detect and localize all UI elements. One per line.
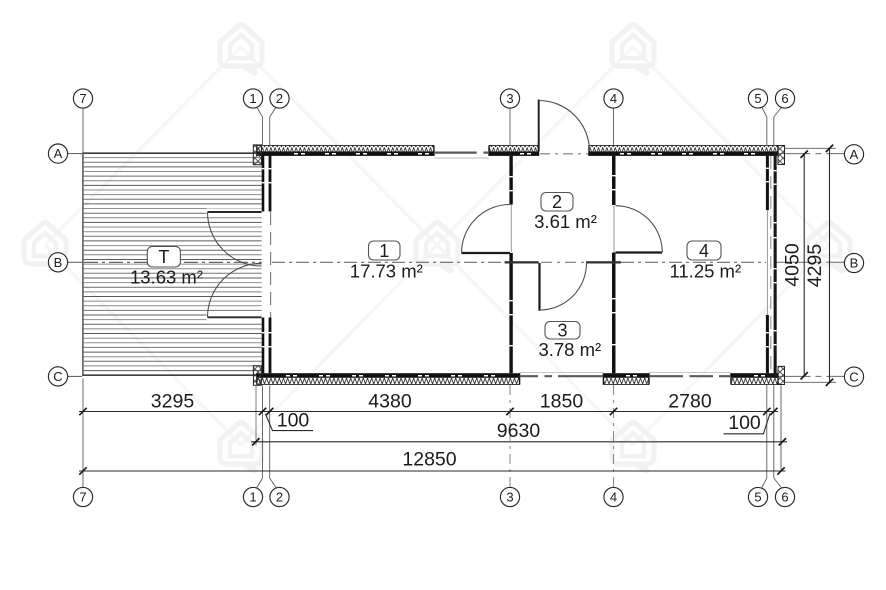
grid axis circle 3 top [500,89,519,108]
entry door swing [539,101,590,152]
interior wall axis B left segment [505,261,539,263]
svg-text:2: 2 [276,91,283,106]
dim line 4295 [829,148,831,382]
svg-text:4: 4 [610,490,617,505]
svg-text:4: 4 [610,91,617,106]
door room3 leaf [538,263,540,311]
room label 4 box [687,241,721,260]
grid axis circle 6 top [775,89,794,108]
svg-text:4050: 4050 [782,243,804,287]
room label 1 box [369,241,401,260]
svg-text:1: 1 [249,490,256,505]
svg-text:B: B [54,255,63,270]
svg-text:11.25 m²: 11.25 m² [669,261,741,282]
grid axis circle 6 bottom [775,487,794,506]
dimension row 3 line (12850) [79,470,786,472]
room label 2 box [541,193,573,212]
room label 3 box [545,322,580,340]
door room1-room2 jamb line [510,205,512,253]
svg-text:6: 6 [781,91,788,106]
right wall centre dash line [770,156,772,373]
svg-text:3: 3 [506,490,513,505]
grid axis circle 2 top [270,89,289,108]
svg-text:1: 1 [249,91,256,106]
door room4-room2 jamb line [613,206,615,253]
grid axis circle 3 bottom [500,487,519,506]
grid axis circle 1 bottom [243,487,262,506]
door room4-room2 swing [616,206,663,253]
svg-text:A: A [54,146,63,161]
svg-text:3.78 m²: 3.78 m² [538,339,601,360]
interior wall axis 4 upper stub [612,156,616,205]
axis 3 line upper [509,108,511,145]
terrace double door top leaf [207,209,262,216]
svg-text:17.73 m²: 17.73 m² [350,261,423,282]
dimension row 2 line (9630) [251,441,787,443]
grid axis circle A left [48,144,67,163]
grid axis circle A right [844,145,863,164]
grid axis circle C right [844,367,863,386]
grid axis circle 4 bottom [604,487,623,506]
axis 4 line upper [613,108,615,145]
svg-text:2780: 2780 [668,390,712,412]
interior wall axis 3 upper stub [509,156,512,205]
axis B line [68,261,83,263]
svg-text:1850: 1850 [540,390,584,412]
right wall (axis 5-6) [774,151,777,377]
right extension line at A [785,147,837,149]
svg-text:T: T [158,247,169,267]
terrace double door bottom swing [208,263,262,317]
top-right corner post [778,146,785,165]
bottom window room4 [649,375,731,377]
door room4-room2 leaf [616,251,663,253]
axis 7 line upper [82,108,84,153]
interior wall axis 3 lower [509,253,512,373]
svg-text:4295: 4295 [804,244,826,288]
top wall window [434,152,489,154]
top wall: segments with insulation hatch + black core [257,145,434,151]
svg-text:7: 7 [79,91,86,106]
svg-text:9630: 9630 [497,420,541,442]
svg-text:100: 100 [277,410,310,432]
right extension line at bottom [785,381,837,383]
svg-text:12850: 12850 [402,448,456,470]
dim line 4050 [803,154,805,376]
svg-text:3: 3 [506,91,513,106]
door room1-room2 leaf [462,252,511,254]
grid axis circle 5 top [748,89,767,108]
grid axis circle C left [48,367,67,386]
svg-text:C: C [53,369,62,384]
terrace double door bottom leaf [207,314,262,321]
grid axis circle 7 bottom [73,487,92,506]
axis A line [68,153,83,155]
svg-text:5: 5 [754,91,761,106]
svg-text:6: 6 [781,490,788,505]
svg-text:C: C [849,369,858,384]
svg-text:3: 3 [557,321,567,341]
svg-text:13.63 m²: 13.63 m² [130,266,203,287]
bottom-right corner post [778,366,785,384]
door room3 swing [540,263,587,310]
interior wall axis B right segment [586,261,621,263]
svg-text:2: 2 [276,490,283,505]
svg-text:7: 7 [79,490,86,505]
wall joint marks [262,153,777,377]
grid axis circle B right [844,253,863,272]
svg-text:3.61 m²: 3.61 m² [534,211,597,232]
top-left corner post [253,145,261,165]
grid axis circle 5 bottom [748,487,767,506]
axis 2 dashes in terrace door opening [270,212,272,318]
room label T terrace box [147,246,180,267]
grid axis circle 7 top [73,89,92,108]
dim 100 right [724,414,771,434]
watermark house logos [24,25,850,473]
grid axis circle 4 top [604,89,623,108]
entry door leaf [538,100,540,152]
grid axis circle B left [48,253,67,272]
dimension row 1 line [79,411,778,413]
terrace border [82,152,261,154]
svg-text:3295: 3295 [151,390,195,412]
grid axis circle 1 top [243,89,262,108]
door room1-room2 swing [462,205,511,254]
left wall (axis 1-2) segments [262,151,265,211]
terrace deck hatch [84,158,262,371]
svg-text:5: 5 [754,490,761,505]
svg-text:1: 1 [379,241,389,261]
svg-text:4: 4 [699,241,709,261]
extension lines below plan [82,379,84,476]
bottom-left corner post [253,366,261,386]
terrace double door top swing [208,212,262,266]
watermark diagonals [45,47,829,445]
svg-text:B: B [850,256,859,271]
svg-text:A: A [850,147,859,162]
interior wall axis 4 lower [612,253,616,374]
axis extension leaders top [257,107,263,118]
grid axis circle 2 bottom [270,487,289,506]
svg-text:100: 100 [728,412,761,434]
svg-text:4380: 4380 [368,390,412,412]
svg-text:2: 2 [552,192,562,212]
axis C line [68,375,83,377]
bottom wall segments [257,373,520,378]
dim 100 left [266,414,314,431]
bottom window room3 [520,375,604,377]
